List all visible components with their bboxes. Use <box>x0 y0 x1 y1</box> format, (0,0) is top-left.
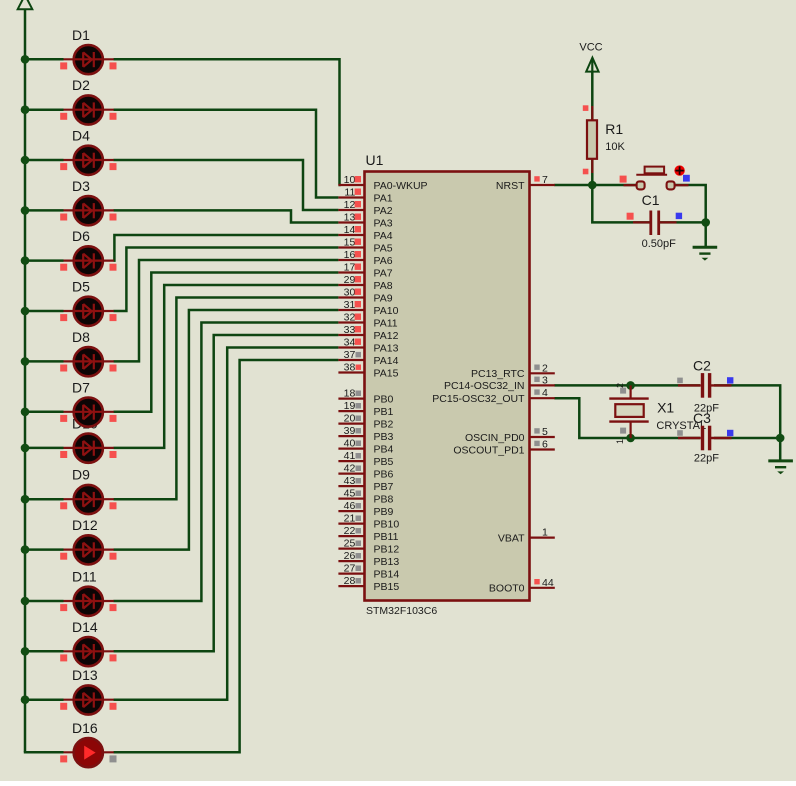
svg-text:34: 34 <box>344 337 356 349</box>
svg-text:PA2: PA2 <box>374 205 393 217</box>
svg-text:PB5: PB5 <box>374 456 394 468</box>
svg-text:17: 17 <box>344 262 356 274</box>
svg-text:D9: D9 <box>72 467 90 483</box>
svg-text:PA14: PA14 <box>374 355 399 367</box>
svg-text:PB0: PB0 <box>374 393 394 405</box>
svg-text:D7: D7 <box>72 379 90 395</box>
svg-text:2: 2 <box>542 362 548 374</box>
svg-text:PA12: PA12 <box>374 330 399 342</box>
svg-text:6: 6 <box>542 439 548 451</box>
svg-text:14: 14 <box>344 224 356 236</box>
svg-text:VBAT: VBAT <box>498 532 525 544</box>
svg-text:PA13: PA13 <box>374 342 399 354</box>
svg-text:PB9: PB9 <box>374 506 394 518</box>
svg-text:D11: D11 <box>72 569 97 585</box>
svg-text:BOOT0: BOOT0 <box>489 583 525 595</box>
svg-text:PB11: PB11 <box>374 531 399 543</box>
svg-text:PB12: PB12 <box>374 543 400 555</box>
svg-text:PA1: PA1 <box>374 192 393 204</box>
svg-text:28: 28 <box>344 575 356 587</box>
svg-text:PB7: PB7 <box>374 481 394 493</box>
svg-text:38: 38 <box>344 362 356 374</box>
svg-text:13: 13 <box>344 212 356 224</box>
svg-text:18: 18 <box>344 388 356 400</box>
svg-text:21: 21 <box>344 513 356 525</box>
svg-text:PB13: PB13 <box>374 556 400 568</box>
svg-text:20: 20 <box>344 413 356 425</box>
svg-text:26: 26 <box>344 550 356 562</box>
svg-text:40: 40 <box>344 438 356 450</box>
svg-text:PA7: PA7 <box>374 267 393 279</box>
svg-text:10: 10 <box>344 174 356 186</box>
svg-text:C2: C2 <box>693 357 711 373</box>
svg-text:4: 4 <box>542 387 548 399</box>
svg-text:PA9: PA9 <box>374 292 393 304</box>
svg-text:33: 33 <box>344 324 356 336</box>
svg-text:D5: D5 <box>72 279 90 295</box>
svg-text:43: 43 <box>344 475 356 487</box>
svg-text:PA6: PA6 <box>374 255 393 267</box>
svg-text:41: 41 <box>344 450 356 462</box>
svg-text:44: 44 <box>542 577 554 589</box>
svg-text:D14: D14 <box>72 619 98 635</box>
svg-text:PA8: PA8 <box>374 280 393 292</box>
svg-text:32: 32 <box>344 312 356 324</box>
svg-text:OSCIN_PD0: OSCIN_PD0 <box>465 432 525 444</box>
svg-text:D16: D16 <box>72 720 98 736</box>
svg-text:VCC: VCC <box>579 42 602 54</box>
svg-text:PB10: PB10 <box>374 518 400 530</box>
svg-text:19: 19 <box>344 400 356 412</box>
svg-text:PB15: PB15 <box>374 581 400 593</box>
svg-text:5: 5 <box>542 426 548 438</box>
svg-text:D13: D13 <box>72 667 98 683</box>
svg-text:29: 29 <box>344 274 356 286</box>
svg-text:D12: D12 <box>72 517 98 533</box>
svg-text:30: 30 <box>344 287 356 299</box>
svg-text:PC14-OSC32_IN: PC14-OSC32_IN <box>444 380 525 392</box>
svg-text:46: 46 <box>344 500 356 512</box>
svg-text:R1: R1 <box>605 121 623 137</box>
svg-text:45: 45 <box>344 488 356 500</box>
svg-text:PC15-OSC32_OUT: PC15-OSC32_OUT <box>432 393 525 405</box>
svg-text:D2: D2 <box>72 77 90 93</box>
svg-text:D3: D3 <box>72 178 90 194</box>
svg-text:31: 31 <box>344 299 356 311</box>
svg-text:37: 37 <box>344 349 356 361</box>
svg-text:2: 2 <box>615 383 625 388</box>
svg-text:U1: U1 <box>366 152 384 168</box>
svg-text:PB3: PB3 <box>374 431 394 443</box>
svg-text:10K: 10K <box>605 141 625 153</box>
svg-text:PA3: PA3 <box>374 217 393 229</box>
svg-text:PB2: PB2 <box>374 418 394 430</box>
svg-text:1: 1 <box>542 527 548 539</box>
svg-text:X1: X1 <box>657 399 674 415</box>
svg-text:16: 16 <box>344 249 356 261</box>
svg-text:PA4: PA4 <box>374 230 393 242</box>
svg-text:C3: C3 <box>693 410 711 426</box>
svg-text:D1: D1 <box>72 27 90 43</box>
svg-text:STM32F103C6: STM32F103C6 <box>366 605 437 617</box>
svg-text:PA10: PA10 <box>374 305 399 317</box>
svg-text:7: 7 <box>542 174 548 186</box>
svg-text:D6: D6 <box>72 228 90 244</box>
svg-text:PB8: PB8 <box>374 493 394 505</box>
svg-text:27: 27 <box>344 563 356 575</box>
svg-text:3: 3 <box>542 374 548 386</box>
svg-text:12: 12 <box>344 199 356 211</box>
svg-text:22: 22 <box>344 525 356 537</box>
svg-text:C1: C1 <box>642 192 660 208</box>
svg-text:PC13_RTC: PC13_RTC <box>471 368 525 380</box>
svg-text:1: 1 <box>615 439 625 444</box>
svg-text:PB1: PB1 <box>374 406 394 418</box>
svg-text:NRST: NRST <box>496 180 525 192</box>
svg-text:PB4: PB4 <box>374 443 394 455</box>
svg-text:PA0-WKUP: PA0-WKUP <box>374 180 428 192</box>
svg-text:42: 42 <box>344 463 356 475</box>
svg-text:15: 15 <box>344 237 356 249</box>
svg-text:PB6: PB6 <box>374 468 394 480</box>
svg-text:PA15: PA15 <box>374 367 399 379</box>
svg-text:D4: D4 <box>72 128 90 144</box>
svg-text:0.50pF: 0.50pF <box>642 238 677 250</box>
svg-text:D8: D8 <box>72 329 90 345</box>
svg-text:39: 39 <box>344 425 356 437</box>
svg-text:11: 11 <box>344 187 355 199</box>
svg-text:OSCOUT_PD1: OSCOUT_PD1 <box>453 444 524 456</box>
svg-text:25: 25 <box>344 538 356 550</box>
svg-text:PA5: PA5 <box>374 242 393 254</box>
svg-text:PA11: PA11 <box>374 317 398 329</box>
svg-text:22pF: 22pF <box>694 453 719 465</box>
svg-text:PB14: PB14 <box>374 568 400 580</box>
